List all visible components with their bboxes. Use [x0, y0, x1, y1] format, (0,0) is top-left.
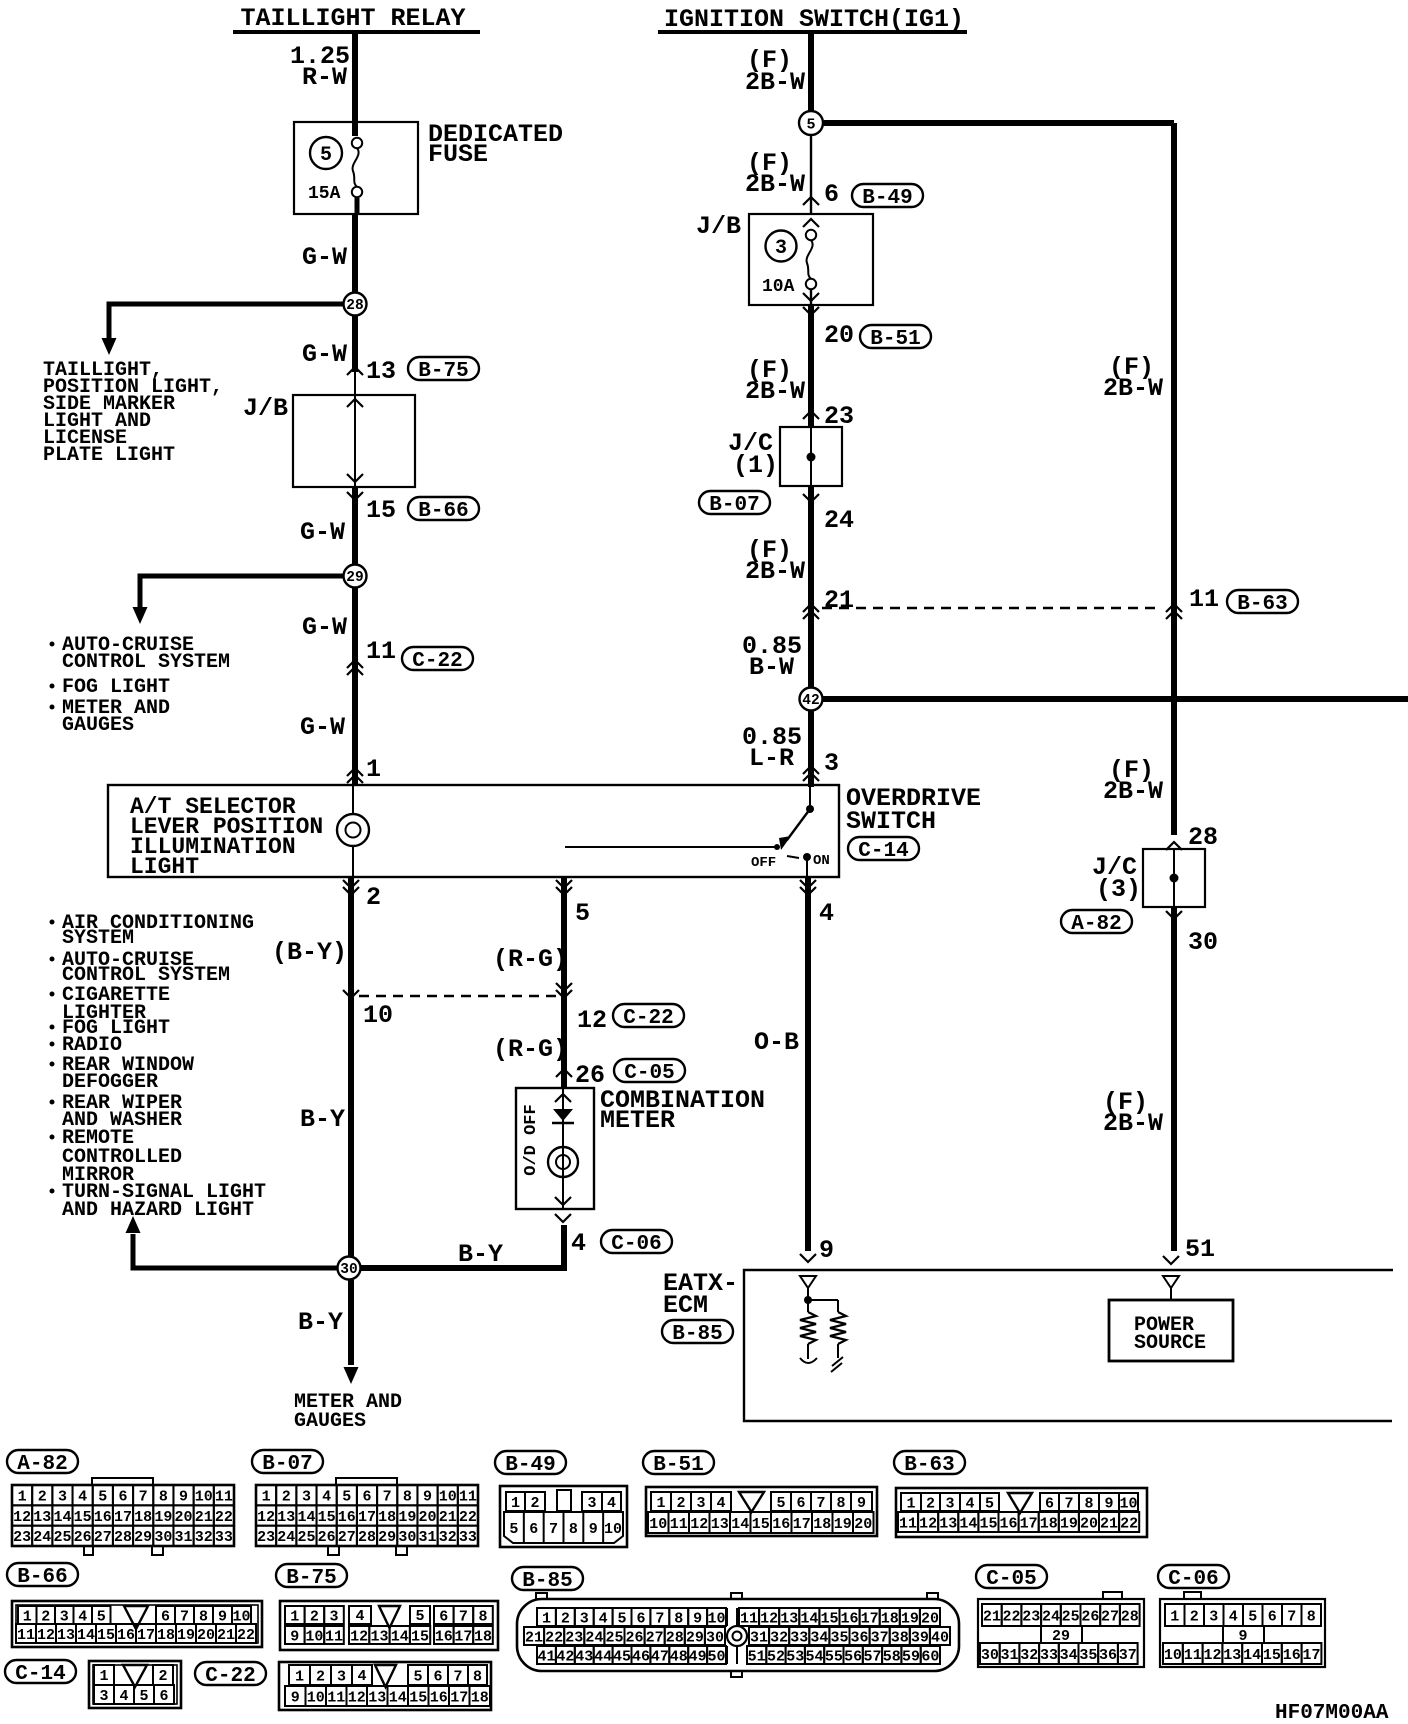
connector B-51 label	[643, 1451, 714, 1477]
svg-text:5: 5	[1248, 1608, 1257, 1625]
svg-text:C-05: C-05	[986, 1568, 1036, 1591]
svg-text:7: 7	[1287, 1608, 1296, 1625]
svg-text:B-49: B-49	[505, 1454, 555, 1477]
svg-text:35: 35	[1079, 1647, 1097, 1664]
joint connector J/C(3)	[1143, 849, 1205, 907]
svg-text:B-85: B-85	[672, 1323, 722, 1346]
svg-text:(B-Y): (B-Y)	[272, 938, 347, 967]
svg-text:4: 4	[819, 899, 834, 928]
A/T selector illumination lamp symbol	[337, 785, 369, 877]
svg-text:AND HAZARD LIGHT: AND HAZARD LIGHT	[62, 1199, 254, 1222]
svg-text:8: 8	[478, 1608, 487, 1625]
svg-text:B-66: B-66	[17, 1566, 67, 1589]
svg-text:21: 21	[525, 1629, 543, 1646]
wire label G-W	[302, 243, 347, 272]
dedicated fuse box	[294, 122, 418, 214]
svg-text:10: 10	[363, 1001, 393, 1030]
branch wire to taillight loads	[102, 304, 345, 355]
svg-text:G-W: G-W	[302, 613, 347, 642]
svg-text:5: 5	[139, 1688, 148, 1705]
svg-text:42: 42	[556, 1648, 574, 1665]
svg-text:3: 3	[1209, 1608, 1218, 1625]
svg-text:10A: 10A	[762, 277, 795, 297]
svg-text:16: 16	[430, 1689, 448, 1706]
svg-text:SOURCE: SOURCE	[1134, 1332, 1206, 1355]
svg-text:9: 9	[589, 1521, 598, 1538]
svg-text:32: 32	[770, 1629, 788, 1646]
svg-text:33: 33	[790, 1629, 808, 1646]
wire from IGNITION SWITCH to node 5	[808, 34, 814, 111]
svg-text:3: 3	[329, 1608, 338, 1625]
wire pin 5 to pin 12, (R-G)	[493, 877, 568, 1088]
svg-text:10: 10	[1164, 1647, 1182, 1664]
pin 11 with connector B-63	[1166, 585, 1298, 619]
dashed pairing line pin 21 to pin 11	[822, 607, 1160, 609]
svg-text:2B-W: 2B-W	[1103, 777, 1163, 806]
svg-text:24: 24	[1042, 1608, 1060, 1625]
svg-text:7: 7	[453, 1668, 462, 1685]
svg-text:26: 26	[74, 1529, 92, 1546]
svg-text:20: 20	[419, 1509, 437, 1526]
svg-text:9: 9	[693, 1610, 702, 1627]
svg-text:28: 28	[1121, 1608, 1139, 1625]
svg-text:50: 50	[708, 1648, 726, 1665]
svg-text:B-W: B-W	[749, 653, 794, 682]
svg-text:30: 30	[340, 1262, 357, 1278]
svg-text:30: 30	[1188, 928, 1218, 957]
svg-text:38: 38	[891, 1629, 909, 1646]
svg-text:28: 28	[346, 298, 363, 314]
svg-text:15: 15	[409, 1689, 427, 1706]
svg-text:41: 41	[537, 1648, 555, 1665]
svg-text:G-W: G-W	[300, 518, 345, 547]
svg-text:21: 21	[439, 1509, 457, 1526]
svg-text:26: 26	[626, 1629, 644, 1646]
svg-text:SWITCH: SWITCH	[846, 807, 936, 836]
wire J/B to J/C(1), (F) 2B-W	[745, 305, 811, 427]
pin 13 with connector B-75	[347, 357, 479, 386]
net title TAILLIGHT RELAY	[233, 4, 480, 33]
svg-text:12: 12	[350, 1628, 368, 1645]
svg-text:21: 21	[1100, 1515, 1118, 1532]
svg-text:29: 29	[134, 1529, 152, 1546]
wire J/C(3) to ECM pin 51, (F) 2B-W	[1103, 907, 1174, 1251]
wire pin 2 down to node 30, B-Y	[348, 877, 354, 1256]
wire node 30 down to meter and gauges, B-Y	[298, 1280, 359, 1384]
svg-text:2: 2	[41, 1608, 50, 1625]
svg-text:10: 10	[439, 1489, 457, 1506]
svg-text:9: 9	[291, 1689, 300, 1706]
svg-text:(R-G): (R-G)	[493, 945, 568, 974]
svg-text:8: 8	[836, 1495, 845, 1512]
overdrive switch OFF ON labels	[751, 853, 830, 871]
wire pin 4 down to node 30, B-Y	[361, 1225, 564, 1269]
svg-text:14: 14	[1243, 1647, 1261, 1664]
svg-text:22: 22	[459, 1509, 477, 1526]
svg-text:G-W: G-W	[300, 713, 345, 742]
svg-text:48: 48	[670, 1648, 688, 1665]
svg-text:4: 4	[355, 1608, 364, 1625]
svg-text:30: 30	[706, 1629, 724, 1646]
svg-text:13: 13	[1223, 1647, 1241, 1664]
connector label B-85	[662, 1320, 733, 1346]
svg-text:31: 31	[419, 1529, 437, 1546]
svg-text:B-63: B-63	[1237, 593, 1287, 616]
svg-text:15: 15	[97, 1627, 115, 1644]
svg-text:12: 12	[257, 1509, 275, 1526]
branch wire to right column	[824, 120, 1174, 126]
fuse circled number 3	[766, 231, 797, 262]
wire label 1.25 R-W	[290, 42, 350, 92]
svg-text:15: 15	[366, 496, 396, 525]
svg-text:12: 12	[13, 1509, 31, 1526]
svg-text:1: 1	[99, 1668, 108, 1685]
svg-text:8: 8	[159, 1489, 168, 1506]
connector B-63 pinout	[896, 1488, 1147, 1537]
svg-text:13: 13	[939, 1515, 957, 1532]
svg-text:1: 1	[18, 1489, 27, 1506]
load list: air conditioning radio defogger etc	[50, 912, 267, 1222]
svg-text:3: 3	[580, 1610, 589, 1627]
svg-text:4: 4	[599, 1610, 608, 1627]
svg-text:29: 29	[378, 1529, 396, 1546]
svg-text:18: 18	[378, 1509, 396, 1526]
svg-text:56: 56	[844, 1648, 862, 1665]
svg-text:36: 36	[851, 1629, 869, 1646]
svg-text:23: 23	[257, 1529, 275, 1546]
svg-text:1: 1	[23, 1608, 32, 1625]
svg-text:G-W: G-W	[302, 340, 347, 369]
svg-text:2B-W: 2B-W	[745, 557, 805, 586]
svg-text:57: 57	[863, 1648, 881, 1665]
svg-text:7: 7	[549, 1521, 558, 1538]
fuse value label 15A	[308, 184, 341, 204]
svg-text:17: 17	[1020, 1515, 1038, 1532]
svg-text:17: 17	[358, 1509, 376, 1526]
EATX-ECM name label	[663, 1269, 738, 1320]
svg-text:4: 4	[571, 1229, 586, 1258]
pin 21	[803, 586, 854, 619]
svg-text:2: 2	[38, 1489, 47, 1506]
svg-text:15: 15	[411, 1628, 429, 1645]
svg-text:16: 16	[94, 1509, 112, 1526]
label METER AND GAUGES	[294, 1391, 402, 1433]
svg-text:20: 20	[854, 1516, 872, 1533]
svg-text:1: 1	[656, 1495, 665, 1512]
svg-text:15: 15	[979, 1515, 997, 1532]
svg-text:19: 19	[398, 1509, 416, 1526]
svg-text:8: 8	[569, 1521, 578, 1538]
svg-text:7: 7	[816, 1495, 825, 1512]
resistor R2	[830, 1312, 846, 1358]
svg-text:C-05: C-05	[624, 1062, 674, 1085]
svg-text:18: 18	[881, 1610, 899, 1627]
svg-text:18: 18	[474, 1628, 492, 1645]
svg-text:11: 11	[325, 1628, 343, 1645]
svg-text:27: 27	[646, 1629, 664, 1646]
combination meter box	[516, 1088, 594, 1209]
dashed pairing line between pin 10 and pin 12	[359, 995, 556, 997]
svg-text:60: 60	[921, 1648, 939, 1665]
svg-text:B-51: B-51	[870, 328, 920, 351]
svg-text:24: 24	[277, 1529, 295, 1546]
connector B-49 pinout	[500, 1486, 627, 1547]
pin 23	[803, 402, 854, 431]
svg-text:1: 1	[511, 1495, 520, 1512]
wire label 0.85 L-R	[742, 723, 802, 773]
svg-text:J/B: J/B	[696, 212, 741, 241]
connector A-82 pinout	[12, 1478, 234, 1555]
svg-text:A-82: A-82	[1071, 913, 1121, 936]
svg-text:15: 15	[74, 1509, 92, 1526]
svg-text:2: 2	[316, 1668, 325, 1685]
svg-text:20: 20	[921, 1610, 939, 1627]
svg-text:2: 2	[158, 1668, 167, 1685]
J/C(1) name label	[728, 429, 778, 480]
svg-text:B-07: B-07	[709, 494, 759, 517]
diode symbol	[552, 1109, 574, 1123]
svg-text:8: 8	[473, 1668, 482, 1685]
svg-text:30: 30	[981, 1647, 999, 1664]
wire node 5 down to J/B	[810, 135, 812, 214]
svg-text:9: 9	[290, 1628, 299, 1645]
svg-text:11: 11	[670, 1516, 688, 1533]
svg-text:29: 29	[346, 570, 363, 586]
svg-text:12: 12	[1203, 1647, 1221, 1664]
svg-text:6: 6	[433, 1668, 442, 1685]
svg-text:A-82: A-82	[17, 1453, 67, 1476]
net title IGNITION SWITCH(IG1)	[658, 5, 967, 34]
svg-text:C-14: C-14	[15, 1663, 65, 1686]
combination meter name text	[600, 1086, 765, 1135]
svg-text:(3): (3)	[1096, 875, 1141, 904]
svg-text:44: 44	[594, 1648, 612, 1665]
svg-text:13: 13	[57, 1627, 75, 1644]
svg-text:6: 6	[796, 1495, 805, 1512]
svg-text:33: 33	[1040, 1647, 1058, 1664]
svg-text:9: 9	[218, 1608, 227, 1625]
svg-text:OFF: OFF	[751, 855, 776, 871]
connector B-07 label	[252, 1450, 323, 1476]
svg-text:13: 13	[711, 1516, 729, 1533]
connector B-85 pinout	[517, 1593, 959, 1677]
pin 10 with dashed link	[343, 990, 393, 1030]
svg-text:18: 18	[471, 1689, 489, 1706]
svg-text:10: 10	[195, 1489, 213, 1506]
svg-text:7: 7	[139, 1489, 148, 1506]
svg-text:34: 34	[1060, 1647, 1078, 1664]
svg-text:22: 22	[545, 1629, 563, 1646]
svg-text:3: 3	[587, 1495, 596, 1512]
svg-text:2B-W: 2B-W	[1103, 374, 1163, 403]
svg-text:30: 30	[154, 1529, 172, 1546]
svg-text:22: 22	[1120, 1515, 1138, 1532]
svg-text:11: 11	[17, 1627, 35, 1644]
pin 15 with connector B-66	[347, 492, 479, 525]
svg-text:58: 58	[883, 1648, 901, 1665]
svg-text:5: 5	[509, 1521, 518, 1538]
svg-text:33: 33	[215, 1529, 233, 1546]
svg-text:19: 19	[1060, 1515, 1078, 1532]
svg-text:7: 7	[655, 1610, 664, 1627]
wire node 29 down, G-W, pin 11 C-22	[302, 588, 473, 675]
svg-text:6: 6	[362, 1489, 371, 1506]
load list: taillight position light side marker license plate	[43, 359, 223, 467]
pin 24	[803, 494, 854, 535]
svg-text:28: 28	[666, 1629, 684, 1646]
svg-text:16: 16	[338, 1509, 356, 1526]
svg-text:8: 8	[403, 1489, 412, 1506]
connector B-66 pinout	[12, 1601, 262, 1647]
svg-text:11: 11	[459, 1489, 477, 1506]
svg-text:31: 31	[750, 1629, 768, 1646]
svg-text:3: 3	[99, 1688, 108, 1705]
svg-text:2B-W: 2B-W	[745, 377, 805, 406]
connector C-06 label	[1158, 1565, 1229, 1591]
overdrive switch name	[846, 784, 981, 836]
svg-text:15: 15	[752, 1516, 770, 1533]
svg-text:B-75: B-75	[418, 360, 468, 383]
wire J/B to node 29, G-W	[300, 487, 355, 564]
diagram id HF07M00AA	[1275, 1702, 1389, 1724]
svg-text:11: 11	[740, 1610, 758, 1627]
svg-text:13: 13	[366, 357, 396, 386]
svg-text:3: 3	[775, 237, 787, 260]
svg-text:2: 2	[676, 1495, 685, 1512]
svg-text:12: 12	[919, 1515, 937, 1532]
svg-text:B-Y: B-Y	[298, 1308, 343, 1337]
svg-text:5: 5	[320, 144, 332, 167]
svg-text:21: 21	[195, 1509, 213, 1526]
svg-text:B-Y: B-Y	[300, 1105, 345, 1134]
svg-text:54: 54	[806, 1648, 824, 1665]
svg-text:C-22: C-22	[623, 1007, 673, 1030]
wire node 28 to J/B pin 13, G-W	[302, 316, 355, 372]
joint connector J/C(1)	[780, 427, 842, 486]
svg-text:20: 20	[175, 1509, 193, 1526]
ground chassis symbol	[831, 1357, 843, 1372]
svg-text:1: 1	[542, 1610, 551, 1627]
node 29 junction	[344, 565, 367, 588]
svg-text:11: 11	[1184, 1647, 1202, 1664]
svg-text:6: 6	[439, 1608, 448, 1625]
svg-text:B-66: B-66	[418, 500, 468, 523]
svg-text:39: 39	[911, 1629, 929, 1646]
svg-text:35: 35	[830, 1629, 848, 1646]
pin 28	[1166, 823, 1218, 852]
svg-text:7: 7	[1064, 1495, 1073, 1512]
svg-text:42: 42	[802, 693, 819, 709]
svg-text:6: 6	[529, 1521, 538, 1538]
meter internal wire	[555, 1088, 571, 1209]
svg-text:GAUGES: GAUGES	[62, 714, 134, 737]
svg-text:3: 3	[58, 1489, 67, 1506]
svg-text:1: 1	[906, 1495, 915, 1512]
svg-text:15: 15	[820, 1610, 838, 1627]
wire to A/T selector light pin 1, G-W	[300, 660, 381, 785]
connector B-49 label	[495, 1451, 566, 1477]
svg-text:CONTROL SYSTEM: CONTROL SYSTEM	[62, 651, 230, 674]
svg-text:16: 16	[772, 1516, 790, 1533]
power source box	[1109, 1300, 1233, 1361]
svg-text:25: 25	[605, 1629, 623, 1646]
svg-text:14: 14	[731, 1516, 749, 1533]
svg-text:11: 11	[215, 1489, 233, 1506]
svg-text:GAUGES: GAUGES	[294, 1410, 366, 1433]
pin 3 of overdrive switch	[803, 711, 839, 787]
svg-text:5: 5	[618, 1610, 627, 1627]
svg-text:15: 15	[1263, 1647, 1281, 1664]
right branch wire (F) 2B-W down to pin 11	[1103, 123, 1174, 608]
connector B-07 pinout	[256, 1478, 478, 1555]
svg-text:10: 10	[1119, 1495, 1137, 1512]
svg-text:B-51: B-51	[653, 1454, 703, 1477]
svg-text:6: 6	[159, 1688, 168, 1705]
pin 26 with connector C-05	[556, 1059, 685, 1090]
connector label C-14	[848, 837, 919, 863]
svg-text:47: 47	[651, 1648, 669, 1665]
svg-text:B-75: B-75	[286, 1567, 336, 1590]
svg-text:16: 16	[841, 1610, 859, 1627]
svg-text:12: 12	[348, 1689, 366, 1706]
svg-text:55: 55	[825, 1648, 843, 1665]
svg-text:28: 28	[358, 1529, 376, 1546]
pin 6 with connector B-49	[803, 180, 923, 210]
svg-text:12: 12	[577, 1006, 607, 1035]
svg-text:20: 20	[824, 321, 854, 350]
svg-text:4: 4	[78, 1608, 87, 1625]
fuse circled number 5	[310, 137, 342, 169]
svg-text:G-W: G-W	[302, 243, 347, 272]
svg-text:12: 12	[37, 1627, 55, 1644]
svg-text:17: 17	[450, 1689, 468, 1706]
pin 51 of EATX-ECM	[1163, 1235, 1215, 1264]
svg-text:13: 13	[33, 1509, 51, 1526]
svg-text:2B-W: 2B-W	[745, 68, 805, 97]
svg-text:16: 16	[117, 1627, 135, 1644]
connector B-66 label	[7, 1563, 78, 1589]
svg-text:4: 4	[716, 1495, 725, 1512]
svg-text:52: 52	[767, 1648, 785, 1665]
branch wire from node 42 to right edge	[822, 696, 1408, 702]
svg-text:O-B: O-B	[754, 1028, 799, 1057]
svg-text:15A: 15A	[308, 184, 341, 204]
svg-text:26: 26	[318, 1529, 336, 1546]
fuse value label 10A	[762, 277, 795, 297]
load list: auto-cruise fog light meter and gauges	[50, 634, 231, 737]
svg-text:14: 14	[391, 1628, 409, 1645]
svg-text:5: 5	[415, 1608, 424, 1625]
svg-text:14: 14	[959, 1515, 977, 1532]
svg-text:1: 1	[295, 1668, 304, 1685]
svg-text:24: 24	[824, 506, 854, 535]
svg-text:LIGHT: LIGHT	[130, 854, 199, 880]
O/D OFF indicator lamp	[548, 1147, 578, 1177]
svg-text:21: 21	[983, 1608, 1001, 1625]
svg-text:28: 28	[1188, 823, 1218, 852]
svg-text:3: 3	[824, 749, 839, 778]
svg-text:9: 9	[819, 1236, 834, 1265]
svg-text:6: 6	[1268, 1608, 1277, 1625]
node 28 junction	[344, 293, 367, 316]
connector B-63 label	[894, 1451, 965, 1477]
svg-text:17: 17	[454, 1628, 472, 1645]
svg-text:7: 7	[180, 1608, 189, 1625]
svg-text:59: 59	[902, 1648, 920, 1665]
svg-text:34: 34	[810, 1629, 828, 1646]
connector B-75 pinout	[280, 1601, 498, 1650]
connector C-22 label	[195, 1662, 266, 1688]
